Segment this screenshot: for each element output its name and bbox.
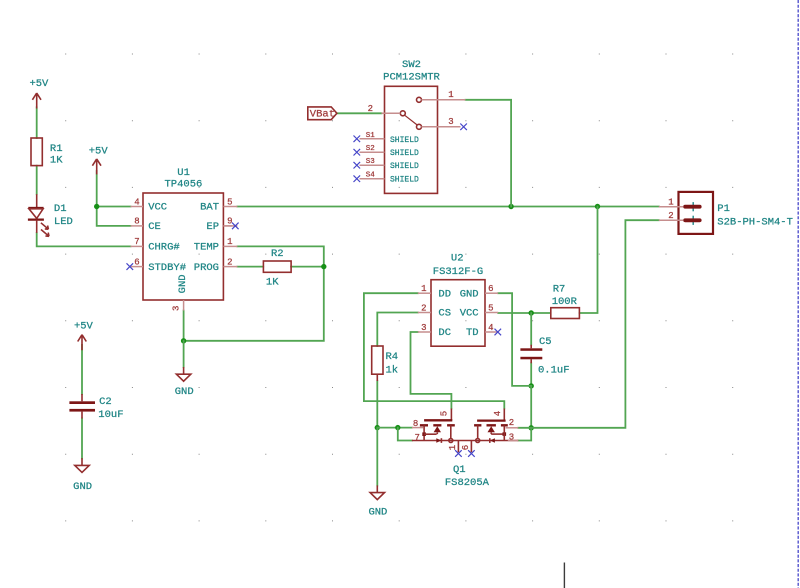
svg-text:S4: S4: [366, 172, 376, 180]
wire C2 to GND: [81, 419, 83, 459]
svg-text:5: 5: [488, 303, 493, 313]
svg-text:SHIELD: SHIELD: [390, 149, 419, 158]
svg-text:GND: GND: [73, 481, 92, 493]
svg-text:FS312F-G: FS312F-G: [433, 266, 483, 278]
svg-text:S2: S2: [366, 145, 375, 153]
node BAT/R7 junction: [595, 204, 600, 209]
svg-text:U2: U2: [451, 253, 464, 265]
sheet frame right border: [797, 0, 799, 588]
svg-text:1: 1: [227, 237, 232, 247]
svg-text:6: 6: [134, 257, 139, 267]
ground GND (Q1/R4): [368, 485, 387, 518]
svg-text:GND: GND: [460, 288, 479, 300]
svg-text:2: 2: [421, 303, 426, 313]
svg-text:VCC: VCC: [148, 202, 167, 214]
resistor R4: [372, 346, 398, 381]
wire VBat to SW2 pin2: [337, 112, 382, 114]
node R2/TEMP junction: [321, 264, 326, 269]
wire Q1 pin3 up to junction: [518, 428, 531, 441]
wire junction to Q1 pin8: [377, 427, 412, 429]
wire U1 TEMP to vertical: [184, 246, 324, 340]
svg-text:2: 2: [668, 211, 673, 221]
IC U1 TP4056: [131, 167, 238, 311]
svg-text:DC: DC: [438, 327, 451, 339]
node VCC junction: [94, 204, 99, 209]
svg-text:PCM12SMTR: PCM12SMTR: [383, 71, 440, 83]
no-connect SW2 S2: [354, 149, 361, 156]
node C5 bottom junction: [529, 383, 534, 388]
wire junction to GND3: [376, 428, 378, 486]
svg-text:3: 3: [448, 117, 453, 127]
svg-text:6: 6: [488, 284, 493, 294]
svg-text:R1: R1: [50, 143, 63, 155]
svg-text:PROG: PROG: [194, 262, 219, 274]
svg-text:STDBY#: STDBY#: [148, 262, 186, 274]
svg-text:DD: DD: [438, 288, 451, 300]
svg-text:GND: GND: [177, 274, 189, 293]
svg-text:S3: S3: [366, 158, 376, 166]
ground GND (U1): [175, 367, 194, 398]
svg-text:1k: 1k: [386, 365, 399, 377]
svg-text:+5V: +5V: [89, 146, 109, 158]
no-connect U2 TD: [495, 329, 502, 336]
svg-text:TD: TD: [466, 327, 479, 339]
svg-text:100R: 100R: [552, 296, 578, 308]
no-connect U1 STDBY#: [127, 263, 134, 270]
wire junction to GND symbol: [183, 341, 185, 367]
svg-text:+5V: +5V: [74, 320, 94, 332]
wire BAT line U1 to P1: [237, 206, 658, 208]
svg-text:6: 6: [461, 445, 471, 450]
wire U1 PROG to R2: [237, 266, 263, 268]
node Q1 pin2 junction: [529, 425, 534, 430]
svg-text:GND: GND: [368, 507, 387, 519]
svg-text:7: 7: [134, 237, 139, 247]
svg-text:SHIELD: SHIELD: [390, 136, 419, 145]
node Q1 pin7 junction: [395, 425, 400, 430]
svg-text:BAT: BAT: [200, 202, 219, 214]
wire U2 VCC to R7: [498, 312, 550, 314]
svg-text:4: 4: [134, 197, 139, 207]
IC U2 FS312F-G: [418, 253, 498, 347]
svg-text:5: 5: [227, 197, 232, 207]
svg-text:LED: LED: [54, 216, 73, 228]
wire C5 top: [530, 313, 532, 345]
svg-text:3: 3: [421, 323, 426, 333]
capacitor C5: [520, 336, 569, 376]
wire +5V to R1: [36, 107, 38, 138]
wire U2 DC to Q1 gate5: [411, 332, 452, 409]
svg-text:1K: 1K: [266, 277, 279, 289]
no-connect SW2 pin3: [460, 124, 467, 131]
node U1 GND junction: [181, 338, 186, 343]
wire +5V2 to VCC junction: [96, 171, 98, 207]
svg-text:EP: EP: [206, 221, 219, 233]
svg-text:4: 4: [493, 411, 503, 416]
svg-text:1K: 1K: [50, 155, 63, 167]
svg-text:4: 4: [488, 323, 493, 333]
node BAT/SW2 junction: [508, 204, 513, 209]
svg-text:1: 1: [421, 284, 426, 294]
svg-text:8: 8: [134, 217, 139, 227]
svg-text:R4: R4: [386, 351, 399, 363]
svg-text:C2: C2: [99, 396, 112, 408]
title block corner line: [563, 563, 565, 588]
svg-text:U1: U1: [177, 167, 190, 179]
wire +5V3 to C2: [81, 345, 83, 394]
wire R2 to TEMP vertical: [291, 266, 324, 268]
label VBat: [308, 107, 337, 120]
wire C5 junction down to Q1 pin2 row: [530, 386, 532, 428]
svg-text:R7: R7: [553, 283, 566, 295]
resistor R2: [263, 248, 291, 289]
wire C5 bottom to junction: [530, 363, 532, 386]
svg-text:2: 2: [509, 418, 514, 428]
ground GND (C2): [73, 458, 92, 493]
wire U2 DD to Q1 gate4: [364, 293, 504, 408]
svg-text:D1: D1: [54, 203, 67, 215]
svg-text:GND: GND: [175, 386, 194, 398]
svg-text:S2B-PH-SM4-T: S2B-PH-SM4-T: [717, 216, 793, 228]
no-connect SW2 S3: [354, 162, 361, 169]
svg-text:2: 2: [227, 257, 232, 267]
no-connect Q1 pin1: [455, 450, 462, 457]
wire junction to U1 VCC: [97, 206, 131, 208]
svg-text:S1: S1: [366, 132, 376, 140]
svg-text:10uF: 10uF: [98, 409, 123, 421]
no-connect SW2 S1: [354, 136, 361, 143]
svg-text:+5V: +5V: [29, 78, 49, 90]
svg-text:CE: CE: [148, 221, 161, 233]
resistor R7: [551, 283, 580, 318]
svg-text:5: 5: [440, 411, 450, 416]
wire D1 cathode to U1 CHRG#: [37, 233, 131, 247]
svg-text:R2: R2: [271, 248, 284, 260]
svg-text:3: 3: [171, 306, 181, 311]
power +5V (R1): [29, 78, 49, 108]
svg-text:VCC: VCC: [460, 308, 479, 320]
svg-text:TP4056: TP4056: [164, 179, 202, 191]
no-connect Q1 pin6: [468, 450, 475, 457]
svg-text:SW2: SW2: [402, 59, 421, 71]
svg-text:SHIELD: SHIELD: [390, 176, 419, 185]
svg-text:CS: CS: [438, 308, 451, 320]
switch SW2 PCM12SMTR: [360, 59, 466, 193]
svg-text:0.1uF: 0.1uF: [538, 364, 570, 376]
svg-text:TEMP: TEMP: [194, 242, 219, 254]
wire R4 bottom to junction: [376, 381, 378, 428]
svg-text:2: 2: [368, 104, 373, 114]
wire U2 CS to R4: [377, 313, 418, 347]
wire R1 to D1: [36, 166, 38, 195]
no-connect U1 EP: [223, 223, 238, 230]
svg-text:1: 1: [448, 90, 453, 100]
svg-text:CHRG#: CHRG#: [148, 242, 180, 254]
wire SW2 pin1 down to BAT line: [466, 100, 512, 207]
svg-text:C5: C5: [539, 336, 552, 348]
svg-text:Q1: Q1: [453, 464, 466, 476]
wire junction down to U1 CE: [97, 207, 131, 226]
wire U2 GND to C5 junction: [498, 293, 531, 386]
svg-text:VBat: VBat: [310, 108, 335, 120]
svg-text:FS8205A: FS8205A: [445, 477, 490, 489]
wire R7 right to BAT junction: [580, 207, 598, 314]
connector P1 S2B-PH-SM4-T: [659, 192, 793, 234]
power +5V (C2): [74, 320, 94, 350]
dual MOSFET Q1 FS8205A: [412, 409, 518, 489]
svg-text:SHIELD: SHIELD: [390, 162, 419, 171]
svg-text:P1: P1: [717, 203, 730, 215]
no-connect SW2 S4: [354, 175, 361, 182]
power +5V (U1 VCC): [89, 146, 109, 175]
svg-text:1: 1: [448, 445, 458, 450]
node R4/GND junction: [375, 425, 380, 430]
resistor R1: [31, 138, 63, 167]
node C5 top junction: [529, 310, 534, 315]
wire U1 GND pin to junction: [183, 311, 185, 341]
svg-text:1: 1: [668, 197, 673, 207]
wire Q1 pin2 row to P1 pin2: [518, 220, 659, 428]
wire junction down to Q1 pin7: [398, 428, 412, 441]
LED D1: [28, 194, 73, 236]
capacitor C2: [69, 394, 123, 421]
